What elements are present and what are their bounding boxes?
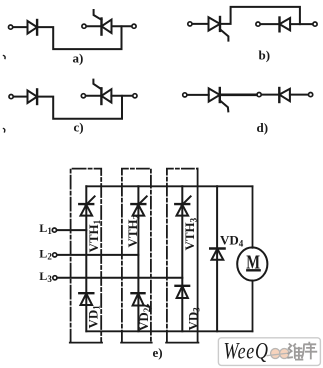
- svg-text:L3: L3: [39, 269, 52, 284]
- L2 input terminal: [53, 253, 57, 257]
- diode VD (a, pointing right): [28, 20, 38, 35]
- wire: [290, 94, 308, 96]
- svg-text:VD3: VD3: [185, 307, 201, 331]
- wire: [252, 281, 254, 332]
- wire: [87, 25, 102, 27]
- thyristor VTH2: [131, 196, 146, 215]
- wire: [37, 26, 121, 49]
- wire: [13, 26, 27, 28]
- column 2 wire: [137, 186, 139, 331]
- motor underline: [247, 269, 259, 271]
- wire: [290, 23, 312, 25]
- svg-text:d): d): [257, 120, 269, 135]
- watermark o: [271, 349, 280, 359]
- svg-text:VD4: VD4: [220, 233, 244, 249]
- column 3 wire: [181, 186, 183, 331]
- thyristor VTH3: [175, 196, 190, 215]
- wire L1: [57, 229, 87, 231]
- svg-text:L2: L2: [39, 247, 52, 262]
- thyristor VTH (c, pointing left): [93, 80, 111, 104]
- wire L2: [57, 254, 138, 256]
- bottom bus wire: [86, 330, 252, 332]
- scan speck: [4, 129, 5, 132]
- motor branch wire: [252, 186, 254, 248]
- L3 input terminal: [53, 276, 57, 280]
- circuit d: middle terminal: [257, 93, 261, 97]
- wire: [112, 25, 132, 27]
- watermark strike line: [267, 353, 290, 356]
- circuit a: right terminal: [132, 24, 136, 28]
- node terminal (a, middle): [82, 24, 86, 28]
- wire: [14, 96, 28, 98]
- diode VD (b, pointing left): [280, 18, 291, 32]
- thyristor VTH1: [79, 196, 94, 215]
- motor M: [237, 247, 267, 280]
- wire: [86, 95, 101, 97]
- wire: [220, 94, 257, 97]
- node terminal (c, middle): [81, 94, 85, 98]
- diode VD2: [132, 293, 145, 305]
- svg-text:a): a): [73, 51, 84, 66]
- watermark text wei (drawn): [287, 344, 303, 360]
- diode VD3: [176, 286, 190, 298]
- wire: [111, 95, 132, 97]
- top bus wire: [86, 185, 252, 187]
- wire: [193, 23, 209, 25]
- diode VD (c, pointing right): [28, 89, 38, 104]
- wire: [262, 94, 280, 96]
- svg-text:WeeQ: WeeQ: [224, 340, 269, 365]
- thyristor VTH (a, pointing left): [94, 10, 112, 35]
- circuit c: left terminal: [9, 95, 13, 99]
- module box 1 (dash-dot): [70, 169, 102, 343]
- module box 3 (dash-dot): [166, 169, 198, 343]
- svg-text:VTH1: VTH1: [86, 219, 102, 252]
- watermark o: [280, 349, 289, 359]
- circuit b: middle terminal: [256, 22, 260, 26]
- svg-text:c): c): [74, 120, 84, 135]
- diode VD1: [79, 293, 93, 305]
- circuit d: left terminal: [183, 93, 187, 97]
- svg-text:VTH3: VTH3: [182, 217, 198, 250]
- wire: [261, 23, 280, 25]
- wire: [37, 96, 122, 119]
- svg-text:b): b): [259, 48, 271, 63]
- wire: [187, 94, 208, 96]
- svg-text:M: M: [246, 250, 260, 273]
- watermark text ku (drawn): [302, 342, 318, 360]
- L1 input terminal: [52, 228, 56, 232]
- wire L3: [57, 277, 182, 279]
- circuit b: left terminal: [188, 22, 192, 26]
- wire: [220, 7, 300, 24]
- scan speck: [4, 56, 6, 59]
- svg-text:L1: L1: [39, 221, 52, 236]
- column 1 wire: [85, 186, 87, 331]
- module box 2 (dash-dot): [121, 169, 152, 343]
- diode VD (d, pointing left): [279, 88, 290, 102]
- svg-text:VD1: VD1: [85, 305, 101, 329]
- diode VD4: [210, 249, 224, 260]
- circuit a: left terminal: [9, 25, 13, 29]
- watermark box: [218, 338, 320, 366]
- circuit b: right terminal: [313, 22, 317, 26]
- circuit d: right terminal: [309, 93, 313, 97]
- circuit c: right terminal: [133, 94, 137, 98]
- VD2 stray arrow mark: [144, 305, 150, 307]
- svg-text:VTH2: VTH2: [125, 214, 141, 247]
- thyristor VTH (d, pointing right): [209, 88, 229, 111]
- thyristor VTH (b, pointing right): [209, 17, 229, 41]
- svg-text:e): e): [153, 345, 163, 360]
- freewheel branch wire: [216, 186, 218, 331]
